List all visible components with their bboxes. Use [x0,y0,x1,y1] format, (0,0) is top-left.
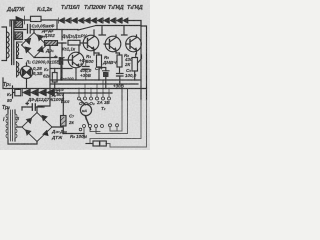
transformer Tr2 core [11,110,13,141]
capacitor C4 [103,70,110,72]
labels [6,5,143,13]
wire R10 leads [62,93,64,134]
wire bridge1 ac top [22,30,34,46]
terminal row 2 [83,124,119,128]
fuse boxes bottom [86,143,93,145]
capacitor C6 [32,104,35,110]
capacitor C5 [117,74,124,77]
transformer Tr1 winding I [2,27,9,61]
bus wire B [51,83,139,85]
bus wire A [50,79,141,81]
wire node vertical [61,30,63,41]
bridge rectifier D5-D8 [22,33,47,58]
resistor R2 1,2k [31,16,42,21]
meter mA [80,104,91,119]
wire T1 emitter rail [50,68,72,70]
diode chain D12-D20 top [58,18,128,23]
resistor R6 [117,55,122,67]
fuse F2 [100,141,107,146]
bridge rectifier D16-D19 [22,113,52,142]
switch arm 2 [86,117,91,130]
bus wire D [57,92,112,94]
wire bus risers [122,89,128,100]
wire right loop verticals [110,100,128,134]
terminal row 1 [78,97,111,100]
resistor R3 62k vertical [52,73,57,83]
wire diagonal to chain node [78,26,141,31]
transformer Tr1 winding IV loops [17,42,23,59]
wire right inner vertical [140,21,142,101]
wire bridge2 leads [24,107,63,144]
transformer Tr1 winding III [15,32,23,40]
resistor R3 base T2 [68,40,80,45]
wire diode row leads [13,86,58,98]
wire second rail [14,21,78,30]
wire bridge2 ac left [17,107,22,127]
transformer Tr2 winding II [15,113,17,139]
diode row D9-D12 [22,89,54,96]
diode D4 [16,16,25,24]
transistor T3 P4D [99,26,127,55]
transformer Tr1 core [12,21,14,65]
fuse F1 [93,141,100,146]
potentiometer R7 [132,58,138,72]
transformer Tr2 winding I [6,113,8,139]
choke Dr1 [45,41,67,46]
transformer Tr1 winding V loops lamp [17,62,19,78]
transistor T2 P200 [80,30,99,55]
wire Tr2 leads [8,108,24,144]
wire top rail left [10,20,58,26]
capacitor C1 2000 [59,57,64,65]
resistor R4 500 [97,55,102,67]
switch arm to meter [80,100,86,105]
lamp L1 [19,64,33,89]
terminal switch pivot [79,128,82,131]
wire C1 rail [34,58,64,81]
wires under terminal row 2 [84,127,128,139]
transistor T4 P4D [126,35,142,58]
wire terminal stubs [79,80,109,97]
wire x50 vertical [38,46,50,106]
wire bottom bundle [63,133,84,135]
capacitor C3 400,0 [83,67,90,70]
capacitor C2 0,05 [28,25,31,34]
transformer Tr1 winding II [15,21,23,28]
wire top right corner [128,21,147,101]
transistor T1 P16 [62,43,84,80]
resistor R9 [15,89,21,95]
resistor R10 vertical with hatches [61,116,67,127]
bus wire C [3,78,147,89]
